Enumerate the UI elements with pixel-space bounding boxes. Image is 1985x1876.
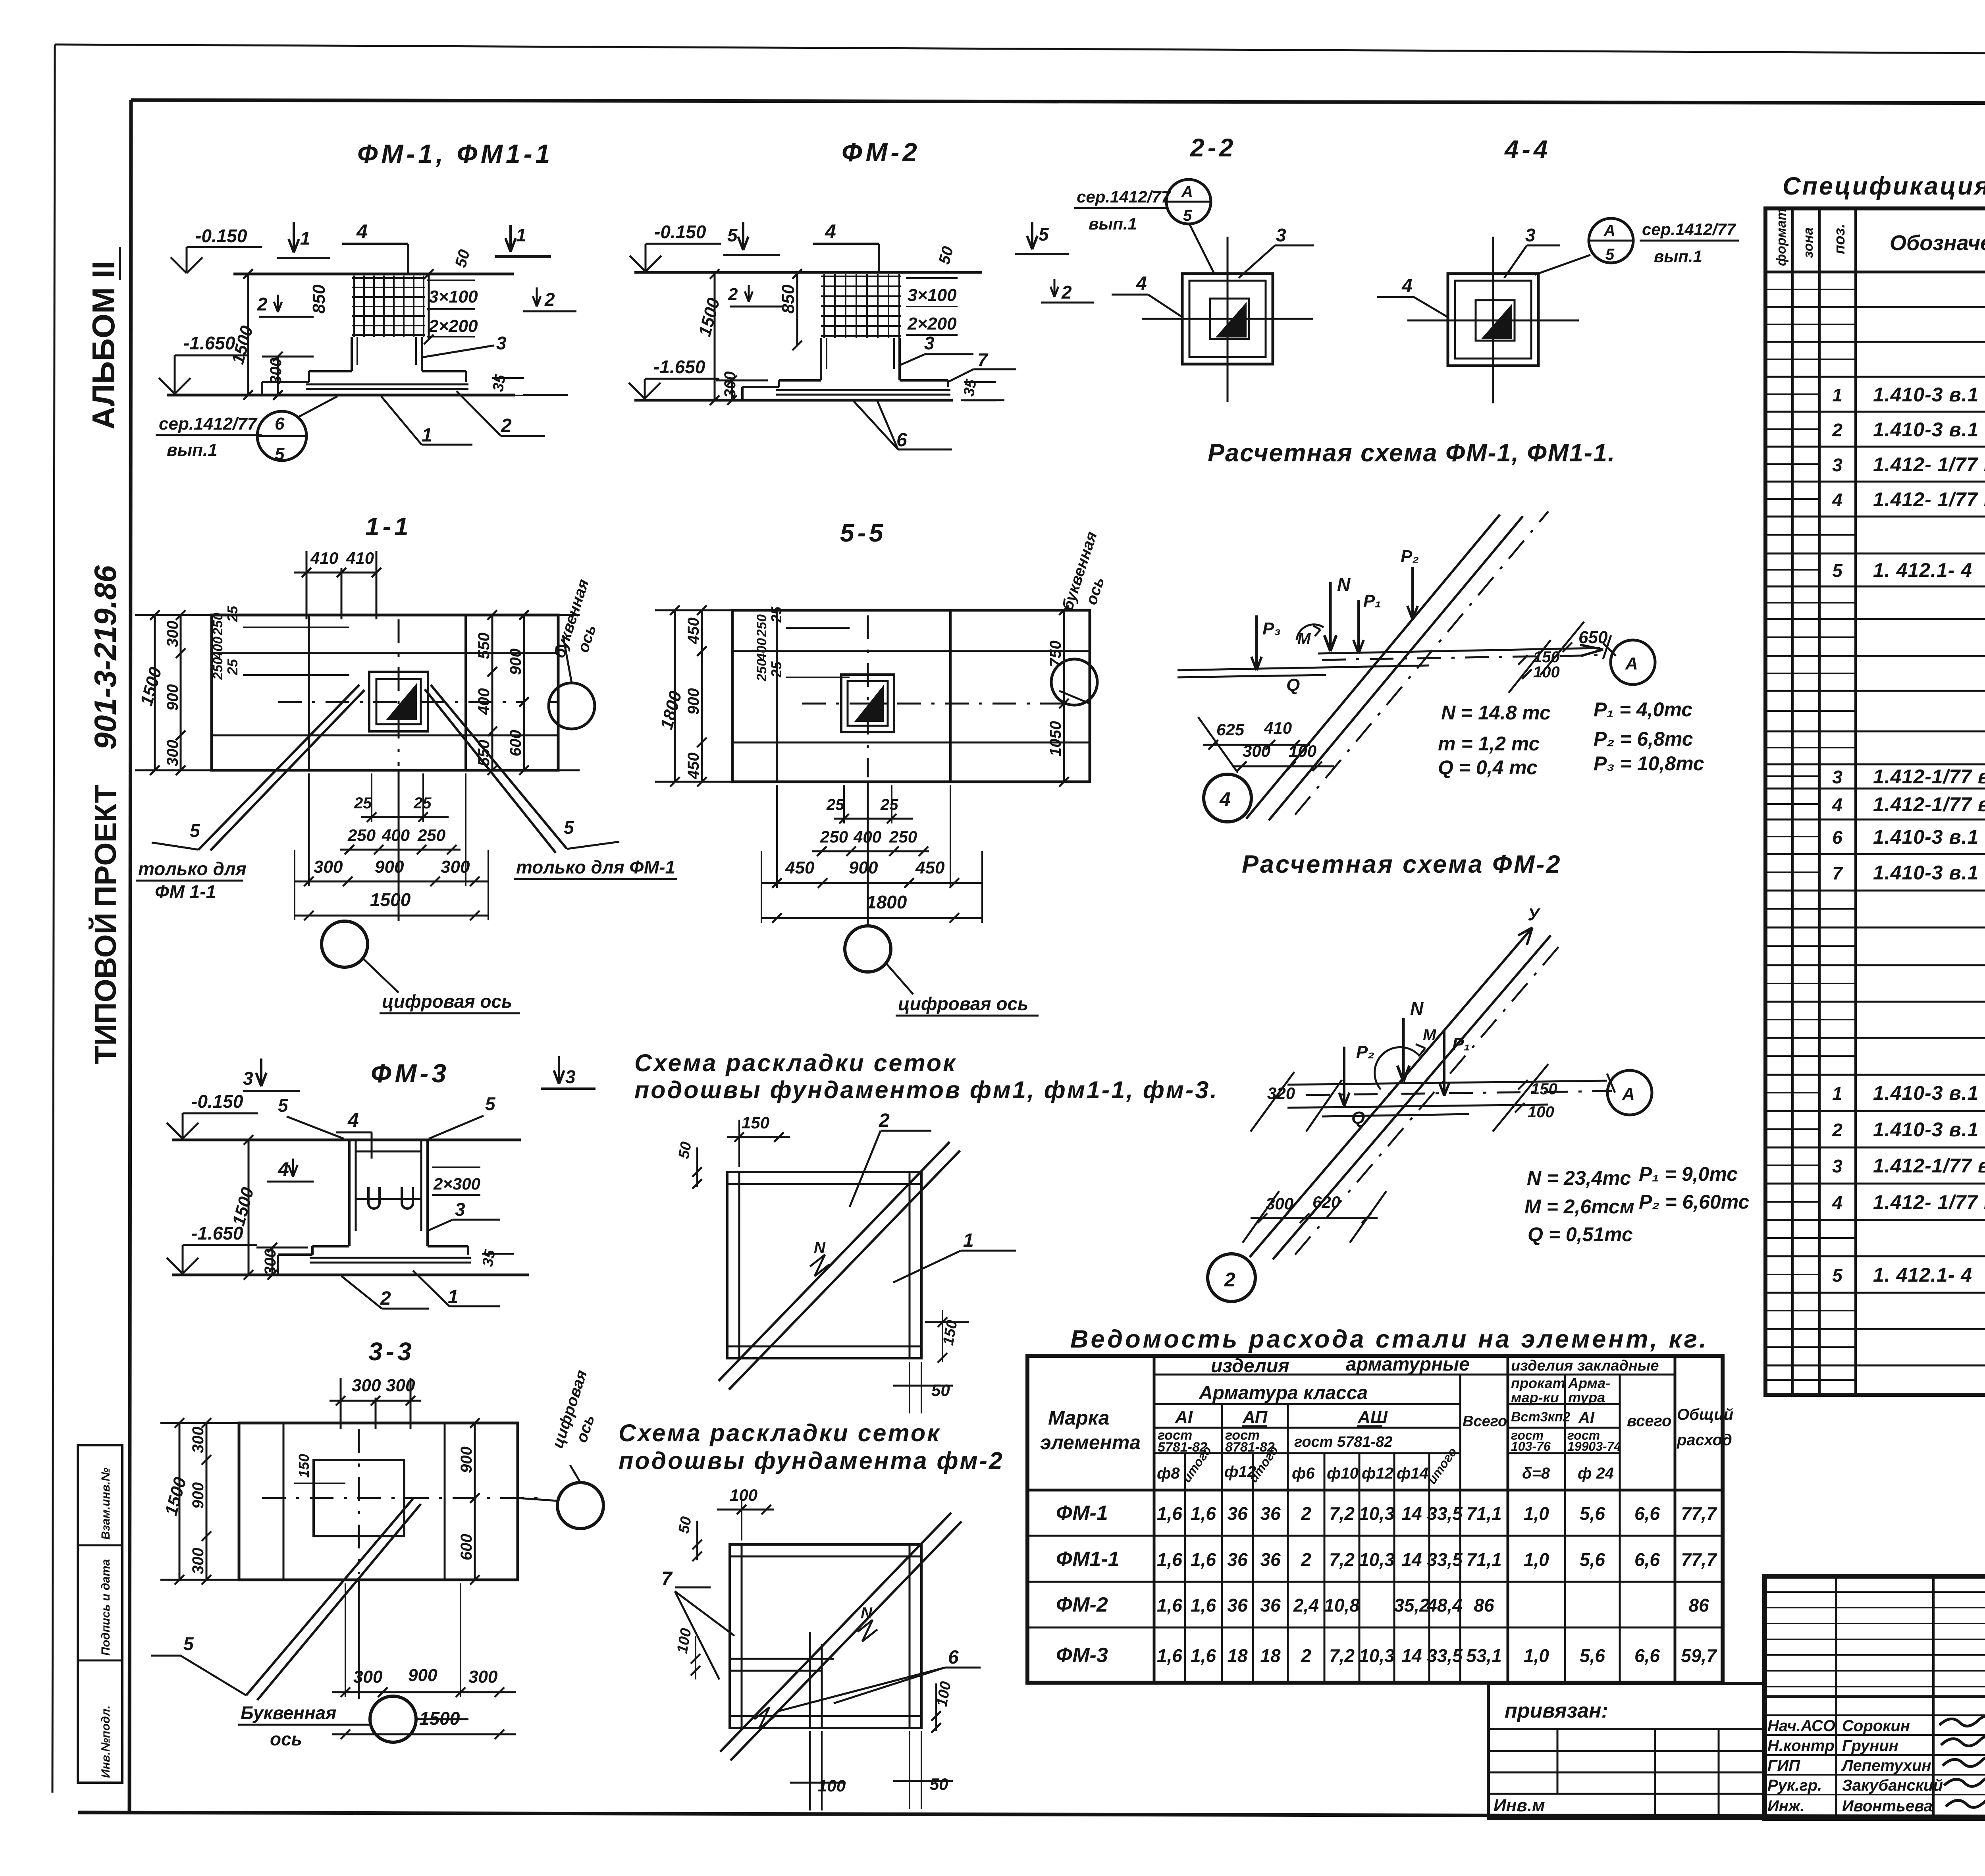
svg-text:3-3: 3-3 <box>368 1337 415 1366</box>
1-1 splayed leader left <box>198 685 359 850</box>
svg-text:50: 50 <box>930 1775 948 1793</box>
svg-text:5,6: 5,6 <box>1580 1549 1605 1570</box>
svg-text:100: 100 <box>1289 742 1316 760</box>
svg-text:5: 5 <box>190 820 200 841</box>
4-4 black flag <box>1483 306 1511 338</box>
ФМ-2 section mark 5 right <box>1031 222 1033 249</box>
svg-text:5: 5 <box>727 225 738 245</box>
svg-text:1.412-1/77 в.3: 1.412-1/77 в.3 <box>1873 765 1985 788</box>
svg-text:25: 25 <box>224 605 241 622</box>
svg-text:250: 250 <box>347 826 376 844</box>
scheme1 force P2 <box>1411 567 1414 619</box>
svg-text:Вст3кп2: Вст3кп2 <box>1511 1409 1571 1425</box>
svg-text:-0.150: -0.150 <box>654 222 706 242</box>
svg-text:Нач.АСО: Нач.АСО <box>1767 1717 1835 1735</box>
svg-text:35,2: 35,2 <box>1394 1595 1430 1616</box>
svg-text:1800: 1800 <box>657 689 686 732</box>
ФМ-1 reinforcement mesh <box>352 277 425 279</box>
svg-text:250: 250 <box>754 659 769 682</box>
svg-text:А: А <box>1181 183 1193 201</box>
svg-text:2: 2 <box>257 294 268 314</box>
svg-text:1050: 1050 <box>1047 721 1064 756</box>
svg-text:100: 100 <box>1528 1103 1554 1121</box>
svg-text:10,3: 10,3 <box>1359 1645 1395 1666</box>
svg-text:Взам.инв.№: Взам.инв.№ <box>99 1468 112 1540</box>
scheme1 circle 4 <box>1204 774 1251 822</box>
meshA diagonal band <box>719 1142 950 1381</box>
svg-text:Общий: Общий <box>1677 1406 1733 1423</box>
svg-text:14: 14 <box>1401 1503 1422 1524</box>
svg-text:подошвы фундамента фм-2: подошвы фундамента фм-2 <box>619 1447 1004 1474</box>
ФМ-1 dim 850 <box>428 274 430 339</box>
svg-text:ФМ-2: ФМ-2 <box>842 137 920 167</box>
svg-text:35: 35 <box>961 378 980 398</box>
spec table verticals <box>1791 208 1794 1395</box>
5-5 inner verticals <box>776 610 778 782</box>
svg-text:4: 4 <box>347 1109 359 1131</box>
svg-text:1: 1 <box>448 1286 459 1307</box>
svg-text:Арма-: Арма- <box>1568 1375 1610 1391</box>
svg-text:3: 3 <box>565 1066 576 1087</box>
ФМ-2 reinforcement mesh <box>821 276 901 277</box>
svg-text:P₁: P₁ <box>1452 1034 1470 1054</box>
1-1 inner horizontals <box>212 652 558 654</box>
svg-text:7: 7 <box>977 349 989 370</box>
svg-text:элемента: элемента <box>1040 1431 1141 1454</box>
svg-text:6,6: 6,6 <box>1634 1645 1660 1666</box>
ФМ-3 section mark 3 right <box>558 1056 560 1084</box>
ФМ-2 base slab lines <box>776 389 950 391</box>
svg-text:1.410-3 в.1: 1.410-3 в.1 <box>1873 1118 1979 1141</box>
scheme2 Y axis arrow <box>1527 927 1532 945</box>
ФМ-3 base slab lines <box>310 1257 471 1259</box>
svg-text:Подпись и дата: Подпись и дата <box>99 1559 112 1656</box>
svg-text:ТИПОВОЙ: ТИПОВОЙ <box>89 912 123 1064</box>
svg-text:1.410-3 в.1: 1.410-3 в.1 <box>1873 418 1979 441</box>
svg-text:7: 7 <box>661 1568 673 1589</box>
svg-text:103-76: 103-76 <box>1511 1439 1551 1454</box>
svg-text:изделия: изделия <box>1211 1355 1289 1377</box>
meshB outer square <box>730 1544 921 1728</box>
svg-text:19903-74: 19903-74 <box>1567 1439 1621 1454</box>
svg-text:620: 620 <box>1312 1193 1340 1211</box>
svg-text:1.412- 1/77 в.3: 1.412- 1/77 в.3 <box>1873 1191 1985 1213</box>
svg-text:300: 300 <box>164 621 181 647</box>
svg-text:1.412- 1/77 в.3: 1.412- 1/77 в.3 <box>1873 453 1985 476</box>
svg-text:300: 300 <box>353 1667 383 1687</box>
svg-text:901-3-219.86: 901-3-219.86 <box>88 565 123 750</box>
svg-text:ось: ось <box>270 1729 302 1749</box>
svg-text:ГИП: ГИП <box>1767 1757 1800 1774</box>
svg-text:250: 250 <box>210 657 225 680</box>
svg-text:5-5: 5-5 <box>840 519 887 547</box>
svg-text:410: 410 <box>1264 719 1292 737</box>
svg-text:3×100: 3×100 <box>429 287 478 307</box>
svg-text:АП: АП <box>1242 1407 1268 1427</box>
svg-text:А: А <box>1625 654 1638 673</box>
svg-text:71,1: 71,1 <box>1466 1549 1502 1570</box>
scheme1 circle А <box>1611 640 1655 684</box>
5-5 inner horizontals <box>732 650 1090 652</box>
svg-text:1.412-1/77 в.3: 1.412-1/77 в.3 <box>1873 1155 1985 1177</box>
title block name rows <box>1765 1714 1985 1716</box>
svg-text:ось: ось <box>574 623 600 655</box>
svg-text:150: 150 <box>1531 1080 1557 1098</box>
ФМ-1 footing outline <box>309 370 352 372</box>
svg-text:35: 35 <box>480 1248 499 1268</box>
svg-text:4-4: 4-4 <box>1504 135 1551 164</box>
svg-text:-1.650: -1.650 <box>191 1223 243 1244</box>
svg-text:6: 6 <box>948 1647 959 1668</box>
svg-text:формат: формат <box>1774 208 1789 266</box>
scheme1 force P1 <box>1357 600 1360 654</box>
svg-text:Арматура класса: Арматура класса <box>1199 1382 1368 1404</box>
ФМ-2 ground line <box>634 271 982 274</box>
svg-text:У: У <box>1528 905 1541 924</box>
svg-text:7,2: 7,2 <box>1329 1645 1355 1666</box>
5-5 axis digit circle bottom <box>845 926 891 972</box>
scheme1 axis horizontal to А <box>1318 648 1600 654</box>
scheme2 moment M <box>1374 1047 1420 1089</box>
svg-text:25: 25 <box>768 606 784 623</box>
2-2 leader 4 <box>1148 295 1183 318</box>
signature scribbles <box>1939 1716 1985 1730</box>
svg-text:4: 4 <box>1219 788 1231 810</box>
svg-text:33,5: 33,5 <box>1427 1645 1463 1666</box>
1-1 right dim chain 900 600 <box>523 615 525 770</box>
svg-text:550: 550 <box>475 632 493 659</box>
svg-text:3: 3 <box>1276 225 1286 245</box>
5-5 center crosshair <box>802 703 1064 705</box>
ФМ-3 footing <box>312 1245 349 1247</box>
svg-text:3: 3 <box>1832 455 1842 475</box>
svg-text:1: 1 <box>963 1230 974 1251</box>
svg-text:2: 2 <box>380 1288 391 1309</box>
scheme2 force N <box>1402 1018 1405 1082</box>
svg-text:25: 25 <box>826 796 844 814</box>
svg-text:арматурные: арматурные <box>1346 1354 1470 1375</box>
svg-text:600: 600 <box>458 1534 475 1560</box>
scheme1 dim 650 <box>1469 619 1540 620</box>
svg-text:М: М <box>1297 630 1311 648</box>
svg-text:P₃ = 10,8тс: P₃ = 10,8тс <box>1594 752 1704 775</box>
3-3 inner rectangle <box>314 1460 404 1536</box>
svg-text:1,6: 1,6 <box>1157 1549 1182 1570</box>
ФМ-2 dim 1500 <box>714 274 716 400</box>
ФМ-1 base slab lines <box>306 384 468 386</box>
svg-text:3: 3 <box>496 333 507 353</box>
svg-text:300: 300 <box>189 1427 207 1453</box>
1-1 inner verticals <box>308 615 310 770</box>
svg-text:P₁: P₁ <box>1363 591 1381 611</box>
svg-text:36: 36 <box>1260 1549 1281 1570</box>
svg-text:300: 300 <box>468 1667 498 1687</box>
inner frame top <box>131 100 1985 104</box>
meshA inner doubled edges <box>738 1172 740 1358</box>
meshA zigzag N mark <box>810 1255 830 1276</box>
svg-text:Q: Q <box>1351 1108 1365 1128</box>
svg-text:650: 650 <box>1578 628 1608 647</box>
svg-text:ФМ 1-1: ФМ 1-1 <box>155 881 216 902</box>
meshB zigzag marks <box>858 1620 877 1641</box>
svg-text:150: 150 <box>296 1454 312 1478</box>
svg-text:300: 300 <box>1243 742 1270 760</box>
meshB inner doubled edges <box>741 1544 743 1728</box>
scheme1 force P3 <box>1255 615 1258 670</box>
scheme2 beam diagonals <box>1250 927 1532 1257</box>
svg-text:цифровая ось: цифровая ось <box>382 991 512 1012</box>
svg-text:320: 320 <box>1267 1084 1295 1103</box>
ФМ-3 dim 1500 <box>248 1140 250 1275</box>
meshB diagonal band <box>720 1513 951 1752</box>
svg-text:Буквенная: Буквенная <box>241 1702 336 1723</box>
4-4 series marker circle А/5 <box>1589 218 1633 263</box>
svg-text:2: 2 <box>1832 420 1842 440</box>
svg-text:1800: 1800 <box>866 892 907 912</box>
svg-text:36: 36 <box>1227 1549 1248 1570</box>
svg-text:2: 2 <box>1832 1120 1842 1140</box>
ФМ-1 ground line <box>233 273 514 276</box>
svg-text:А: А <box>1622 1084 1635 1104</box>
ФМ-3 leader 2 <box>341 1276 382 1309</box>
scheme1 arrowhead <box>1580 645 1603 650</box>
svg-text:1,0: 1,0 <box>1524 1503 1549 1524</box>
svg-text:Спецификация элементов монол: Спецификация элементов монолитных констр… <box>1783 172 1985 200</box>
svg-text:10,8: 10,8 <box>1324 1595 1360 1616</box>
svg-text:Инж.: Инж. <box>1767 1797 1805 1815</box>
svg-text:Инв.м: Инв.м <box>1494 1796 1545 1815</box>
svg-text:3: 3 <box>455 1199 465 1220</box>
svg-text:14: 14 <box>1401 1645 1422 1666</box>
svg-text:P₁ = 4,0тс: P₁ = 4,0тс <box>1594 698 1692 721</box>
svg-text:4: 4 <box>1832 490 1842 510</box>
svg-text:900: 900 <box>375 857 404 877</box>
svg-text:410: 410 <box>346 549 374 567</box>
svg-text:450: 450 <box>785 858 815 877</box>
svg-text:48,4: 48,4 <box>1426 1595 1463 1616</box>
title block thin rows upper left <box>1765 1591 1985 1593</box>
svg-text:ось: ось <box>573 1413 598 1445</box>
svg-text:P₂ = 6,8тс: P₂ = 6,8тс <box>1594 728 1693 750</box>
ФМ-2 leader 6 <box>854 401 898 449</box>
svg-text:Закубанский: Закубанский <box>1842 1777 1943 1794</box>
5-5 outer plan rectangle <box>732 610 1090 782</box>
svg-text:подошвы фундаментов фм1, фм1-1: подошвы фундаментов фм1, фм1-1, фм-3. <box>634 1076 1218 1103</box>
svg-text:59,7: 59,7 <box>1681 1645 1717 1666</box>
svg-text:18: 18 <box>1227 1645 1248 1666</box>
svg-text:4: 4 <box>1136 273 1147 294</box>
svg-text:25: 25 <box>354 794 372 812</box>
svg-text:Инв.№подл.: Инв.№подл. <box>99 1705 112 1778</box>
svg-text:900: 900 <box>458 1446 475 1473</box>
svg-text:цифровая ось: цифровая ось <box>898 993 1028 1014</box>
svg-text:3: 3 <box>243 1068 253 1089</box>
svg-text:М = 2,6тсм: М = 2,6тсм <box>1524 1195 1634 1218</box>
svg-text:400: 400 <box>754 638 769 661</box>
svg-text:250: 250 <box>820 827 848 846</box>
steel table horizontal lines <box>1154 1374 1508 1376</box>
svg-text:1,6: 1,6 <box>1157 1595 1182 1616</box>
svg-text:300: 300 <box>267 358 285 384</box>
ФМ-1 column below mesh <box>351 337 353 371</box>
svg-text:5: 5 <box>564 817 574 838</box>
svg-text:Лепетухин: Лепетухин <box>1841 1757 1931 1774</box>
3-3 axis letter circle <box>370 1696 416 1742</box>
bottom-left attribute boxes <box>78 1445 122 1783</box>
4-4 inner square <box>1455 281 1531 359</box>
svg-text:5: 5 <box>485 1093 496 1114</box>
5-5 core square with flag <box>841 675 894 732</box>
svg-text:2-2: 2-2 <box>1190 133 1237 162</box>
svg-text:N: N <box>861 1604 873 1622</box>
svg-text:ф 24: ф 24 <box>1578 1465 1614 1482</box>
ФМ-2 leader 7 <box>948 369 973 382</box>
svg-text:300: 300 <box>352 1376 381 1395</box>
svg-text:400: 400 <box>210 636 225 659</box>
scheme2 circle 2 <box>1208 1254 1255 1301</box>
svg-text:Схема раскладки сеток: Схема раскладки сеток <box>619 1419 941 1446</box>
ФМ-1 section mark 1 left <box>293 222 295 253</box>
svg-text:10,3: 10,3 <box>1359 1503 1395 1524</box>
svg-text:25: 25 <box>880 796 898 814</box>
svg-text:Всего: Всего <box>1463 1413 1507 1430</box>
svg-text:гост 5781-82: гост 5781-82 <box>1294 1434 1392 1450</box>
svg-text:ФМ-2: ФМ-2 <box>1056 1593 1108 1616</box>
title block verticals left part <box>1835 1576 1837 1818</box>
svg-text:P₂: P₂ <box>1401 547 1419 566</box>
svg-text:1. 412.1- 4: 1. 412.1- 4 <box>1873 1264 1972 1286</box>
svg-text:86: 86 <box>1688 1595 1709 1616</box>
svg-text:Марка: Марка <box>1048 1407 1109 1429</box>
svg-text:100: 100 <box>730 1486 757 1504</box>
svg-text:1: 1 <box>1832 385 1842 405</box>
ФМ-2 section mark 5 left <box>742 222 744 250</box>
svg-text:P₂: P₂ <box>1356 1042 1374 1062</box>
svg-text:Q: Q <box>1286 675 1300 695</box>
svg-text:1: 1 <box>516 225 526 245</box>
svg-text:ФМ-1, ФМ1-1: ФМ-1, ФМ1-1 <box>357 139 553 168</box>
scheme2 force P1 <box>1443 1031 1445 1096</box>
svg-text:2×200: 2×200 <box>428 316 478 336</box>
2-2 outer square <box>1182 274 1273 364</box>
svg-text:АI: АI <box>1175 1407 1193 1427</box>
svg-text:50: 50 <box>676 1515 695 1535</box>
1-1 center crosshair <box>278 701 524 703</box>
svg-text:прокат: прокат <box>1511 1375 1565 1391</box>
svg-text:5: 5 <box>1039 224 1049 245</box>
svg-text:2: 2 <box>544 289 555 310</box>
svg-text:36: 36 <box>1227 1503 1248 1524</box>
svg-text:450: 450 <box>685 752 702 779</box>
svg-text:53,1: 53,1 <box>1466 1645 1502 1666</box>
svg-text:3: 3 <box>1832 1156 1842 1176</box>
svg-text:900: 900 <box>408 1666 437 1685</box>
steel table outer frame <box>1027 1356 1723 1683</box>
ФМ-3 leader 3 <box>428 1220 453 1231</box>
svg-text:тура: тура <box>1568 1389 1605 1406</box>
svg-text:450: 450 <box>685 617 702 644</box>
svg-text:1.410-3 в.1: 1.410-3 в.1 <box>1873 1082 1979 1104</box>
svg-text:P₃: P₃ <box>1262 619 1281 638</box>
svg-text:поз.: поз. <box>1831 224 1848 254</box>
4-4 core square <box>1476 300 1515 341</box>
ФМ-2 leader 3 <box>900 354 925 365</box>
ФМ-2 column below mesh <box>820 338 822 380</box>
3-3 right dim chain 900 600 <box>474 1423 476 1580</box>
ФМ-2 dim 850 <box>796 274 798 345</box>
2-2 leader 3 <box>1239 245 1275 278</box>
ФМ-2 lower ground line <box>634 399 953 402</box>
svg-text:ф12: ф12 <box>1362 1465 1393 1482</box>
ФМ-1 section mark 1 right <box>509 225 512 252</box>
svg-text:2: 2 <box>1061 282 1072 303</box>
svg-text:3×100: 3×100 <box>908 285 957 305</box>
scheme2 axis horizontals <box>1287 1081 1607 1085</box>
svg-text:1.410-3 в.1: 1.410-3 в.1 <box>1873 862 1979 884</box>
svg-text:Рук.гр.: Рук.гр. <box>1767 1777 1822 1794</box>
5-5 right dim chain 750 1050 <box>1063 610 1065 782</box>
svg-text:1,0: 1,0 <box>1524 1645 1549 1666</box>
2-2 inner square <box>1189 281 1266 357</box>
ФМ-1 leader 2 <box>457 391 501 436</box>
5-5 left dim chain 450 900 450 <box>701 610 703 782</box>
svg-text:-1.650: -1.650 <box>183 333 235 353</box>
svg-text:2: 2 <box>1301 1645 1311 1666</box>
2-2 black flag <box>1217 304 1246 337</box>
svg-text:2: 2 <box>879 1110 890 1131</box>
svg-text:АШ: АШ <box>1357 1407 1388 1427</box>
svg-text:1.412-1/77 в.3: 1.412-1/77 в.3 <box>1873 793 1985 816</box>
svg-text:6: 6 <box>275 414 285 434</box>
svg-text:N = 14.8 тс: N = 14.8 тс <box>1441 702 1551 724</box>
svg-text:6,6: 6,6 <box>1634 1503 1660 1524</box>
svg-text:зона: зона <box>1801 228 1816 258</box>
svg-text:5: 5 <box>183 1633 194 1654</box>
svg-text:900: 900 <box>507 648 524 675</box>
1-1 right dim chain 550 400 550 <box>491 615 493 770</box>
svg-text:35: 35 <box>490 373 509 393</box>
ФМ-1 lower ground line <box>167 394 515 397</box>
svg-text:6: 6 <box>1832 827 1842 848</box>
1-1 axis digit circle bottom <box>322 921 368 967</box>
svg-text:300: 300 <box>164 740 181 766</box>
svg-text:4: 4 <box>1832 1192 1842 1213</box>
meshA leader 2 <box>850 1131 881 1207</box>
4-4 leader 4 <box>1414 297 1449 318</box>
svg-text:5: 5 <box>275 444 285 464</box>
2-2 crosshair <box>1142 318 1313 320</box>
ФМ-3 lower ground line <box>172 1274 529 1276</box>
svg-text:1,6: 1,6 <box>1157 1503 1182 1524</box>
spec table row lines <box>1765 306 1985 308</box>
svg-text:1500: 1500 <box>370 889 411 910</box>
svg-text:300: 300 <box>314 857 343 877</box>
svg-text:600: 600 <box>507 730 524 756</box>
4-4 outer square <box>1448 274 1538 366</box>
svg-text:1-1: 1-1 <box>365 512 412 541</box>
svg-text:-0.150: -0.150 <box>195 226 247 246</box>
meshB leader 6 <box>778 1668 945 1711</box>
svg-text:50: 50 <box>935 245 957 266</box>
svg-text:1. 412.1- 4: 1. 412.1- 4 <box>1873 559 1972 581</box>
svg-text:4: 4 <box>278 1158 289 1180</box>
ФМ-1 dim 1500 <box>247 274 249 395</box>
svg-text:18: 18 <box>1260 1645 1281 1666</box>
svg-text:N: N <box>1410 998 1424 1019</box>
1-1 core square with flag <box>369 672 428 731</box>
1-1 outer plan rectangle <box>212 615 558 770</box>
svg-text:Ведомость расхода стали на: Ведомость расхода стали на элемент, кг. <box>1070 1325 1709 1353</box>
